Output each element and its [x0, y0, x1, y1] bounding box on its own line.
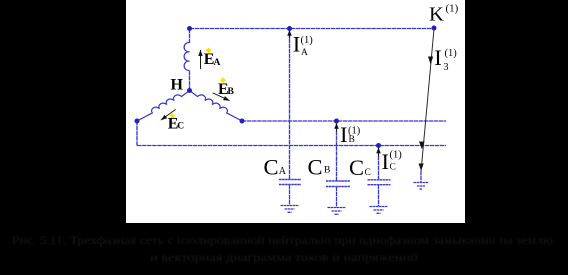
svg-text:A: A — [279, 166, 287, 177]
svg-text:I: I — [293, 32, 301, 57]
svg-text:B: B — [324, 166, 330, 176]
arrowhead I3 lower end — [419, 164, 424, 171]
capacitor CC plates — [368, 180, 391, 185]
ground of CA — [281, 206, 299, 213]
svg-text:I: I — [434, 45, 442, 70]
winding EA (phase A EMF coil) — [184, 42, 189, 70]
node: neutral H — [187, 88, 192, 93]
wire: phase B bus — [242, 120, 446, 122]
wire: phase B feeder down to capacitor CB — [336, 121, 338, 181]
svg-text:(1): (1) — [445, 48, 458, 59]
node: EB output — [240, 119, 245, 124]
svg-text:C: C — [365, 168, 371, 178]
node: K fault point — [432, 26, 437, 31]
svg-text:Рис. 5.11. Трехфазная сеть с и: Рис. 5.11. Трехфазная сеть с изолированн… — [12, 233, 553, 247]
svg-text:C: C — [177, 122, 184, 132]
arrow of EA — [200, 50, 202, 69]
figure white panel — [126, 0, 465, 223]
arrow of IA — [289, 31, 291, 39]
arrow of EB — [213, 93, 230, 101]
ground of CB — [328, 208, 346, 215]
svg-text:и векторная диаграмма токов и: и векторная диаграмма токов и напряжений — [150, 250, 419, 264]
winding EC (phase C EMF coil) — [137, 91, 190, 122]
arrowhead I3 upper — [428, 57, 433, 65]
svg-text:I: I — [382, 149, 390, 174]
node: top-left junction — [187, 26, 192, 31]
arrowhead I3 at bus crossing — [419, 142, 425, 150]
svg-text:C: C — [349, 155, 364, 180]
svg-text:C: C — [308, 155, 323, 180]
svg-text:B: B — [228, 87, 235, 97]
wire: left vertical from EC end to phase C bus — [136, 121, 138, 146]
wire: EA top lead — [189, 29, 191, 44]
wire: top bus phase A — [190, 28, 435, 30]
node: IC junction — [376, 143, 381, 148]
label EA with phasor dot — [206, 48, 212, 54]
wire: CB bottom lead — [336, 187, 338, 208]
arrow of EC — [161, 109, 176, 120]
wire: phase C feeder down to capacitor CC — [378, 146, 380, 180]
svg-text:(1): (1) — [301, 35, 314, 46]
wire: earth lead of fault — [420, 171, 422, 183]
svg-text:H: H — [171, 76, 184, 93]
wire: CA bottom lead — [289, 185, 291, 206]
svg-text:C: C — [390, 163, 396, 173]
wire: phase A feeder down to capacitor CA — [289, 29, 291, 180]
label EB with phasor dot — [220, 77, 226, 83]
capacitor CB plates — [326, 181, 350, 187]
svg-text:C: C — [264, 155, 279, 180]
arrow of IB — [336, 124, 338, 132]
svg-text:3: 3 — [444, 62, 449, 73]
svg-text:K: K — [429, 3, 444, 25]
fault branch line from K to earth — [421, 29, 434, 171]
ground of CC — [370, 207, 388, 214]
svg-text:I: I — [340, 122, 348, 147]
svg-text:(1): (1) — [446, 3, 459, 15]
wire: phase C bus — [137, 145, 446, 147]
svg-text:B: B — [349, 135, 355, 145]
ground of fault branch — [414, 183, 429, 190]
wire: CC bottom lead — [378, 185, 380, 207]
svg-text:A: A — [214, 58, 221, 68]
label EC with phasor dot — [170, 113, 176, 119]
wire: EA bottom lead — [189, 71, 191, 91]
arrow of IC — [378, 148, 380, 157]
svg-text:(1): (1) — [390, 150, 403, 161]
node: EC output — [135, 119, 140, 124]
node: IB junction — [334, 119, 339, 124]
svg-text:A: A — [301, 48, 308, 58]
node: IA junction on top bus — [287, 26, 292, 31]
capacitor CA plates — [279, 180, 301, 185]
winding EB (phase B EMF coil) — [190, 91, 243, 122]
